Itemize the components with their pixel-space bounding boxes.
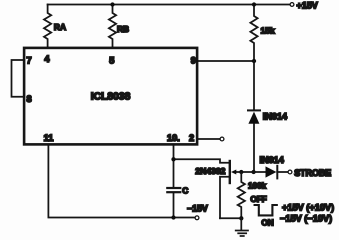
terminal +15V (290, 3, 294, 7)
ground (240, 218, 242, 230)
wire pin10 node to Q1 drain (174, 159, 229, 163)
svg-text:STROBE: STROBE (294, 168, 331, 178)
svg-text:RB: RB (117, 24, 129, 34)
diode D2 1N914 triangle (266, 166, 277, 177)
node junction pin10 / drain (171, 157, 175, 161)
svg-text:2N4392: 2N4392 (195, 166, 225, 176)
svg-text:RA: RA (54, 22, 66, 32)
svg-text:15k: 15k (261, 25, 275, 35)
transistor Q1 gate arrow (231, 170, 236, 175)
node junction pin9 / 15k (252, 59, 256, 63)
wire pin 11 down and -15V rail (48, 146, 195, 218)
terminal pin 2 output (220, 137, 224, 141)
svg-text:C: C (182, 185, 188, 195)
wire strobe node to diode D2 (241, 171, 265, 173)
IC U1 ICL8038 box (24, 48, 197, 144)
switch control pulse waveform (255, 205, 277, 215)
svg-text:+15V: +15V (297, 1, 318, 11)
svg-text:100k: 100k (248, 182, 267, 191)
svg-text:ICL8038: ICL8038 (91, 92, 131, 103)
svg-text:11: 11 (44, 133, 54, 143)
resistor 15k (250, 5, 257, 62)
wire top +15V rail (48, 4, 290, 6)
diode D1 1N914 triangle (248, 112, 259, 124)
svg-text:4: 4 (44, 54, 50, 64)
svg-text:ON: ON (261, 218, 273, 227)
svg-text:IN914: IN914 (260, 155, 285, 165)
terminal -15V (195, 216, 199, 220)
capacitor C bottom plate (167, 191, 180, 193)
svg-text:8: 8 (27, 94, 32, 104)
terminal STROBE (288, 170, 292, 174)
svg-text:−15V: −15V (187, 203, 208, 213)
wire junction down to diode D1 (253, 61, 255, 110)
wire source to ground junction (220, 217, 241, 219)
diode D1 1N914 cathode bar (248, 109, 260, 111)
wire pin 9 to 15k bottom (198, 60, 254, 62)
svg-text:IN914: IN914 (263, 112, 288, 122)
node junction strobe rail (251, 170, 255, 174)
node junction capacitor / -15V rail (171, 215, 175, 219)
wire Q1 source down to ground rail (220, 177, 229, 219)
wire pin7 to pin8 loop (12, 60, 24, 97)
wire capacitor to -15V rail (173, 193, 175, 217)
wire Q1 gate to strobe node (236, 171, 241, 173)
wire D1 anode down to strobe node (253, 124, 255, 172)
transistor Q1 2N4392 channel bar (229, 161, 231, 183)
svg-text:10.: 10. (167, 133, 180, 143)
resistor RB (109, 5, 116, 47)
svg-text:+15V (+10V): +15V (+10V) (282, 202, 334, 212)
wire D2 to strobe terminal (277, 171, 288, 173)
node junction 100k bottom (239, 216, 243, 220)
svg-text:−15V (−10V): −15V (−10V) (280, 213, 332, 223)
node junction 15k / top rail (252, 2, 256, 6)
svg-text:7: 7 (27, 56, 32, 66)
svg-text:9: 9 (191, 56, 196, 66)
svg-text:OFF: OFF (250, 195, 266, 204)
svg-text:5: 5 (109, 55, 114, 65)
resistor RA (44, 5, 51, 47)
svg-text:2: 2 (189, 133, 194, 143)
node junction gate / 100k (239, 170, 243, 174)
wire pin 10 down to capacitor (173, 146, 175, 187)
capacitor C top plate (167, 187, 180, 189)
resistor 100k (238, 172, 245, 218)
diode D2 1N914 cathode bar (276, 166, 278, 179)
wire pin 2 out (198, 138, 220, 140)
node junction RB / top rail (110, 2, 114, 6)
